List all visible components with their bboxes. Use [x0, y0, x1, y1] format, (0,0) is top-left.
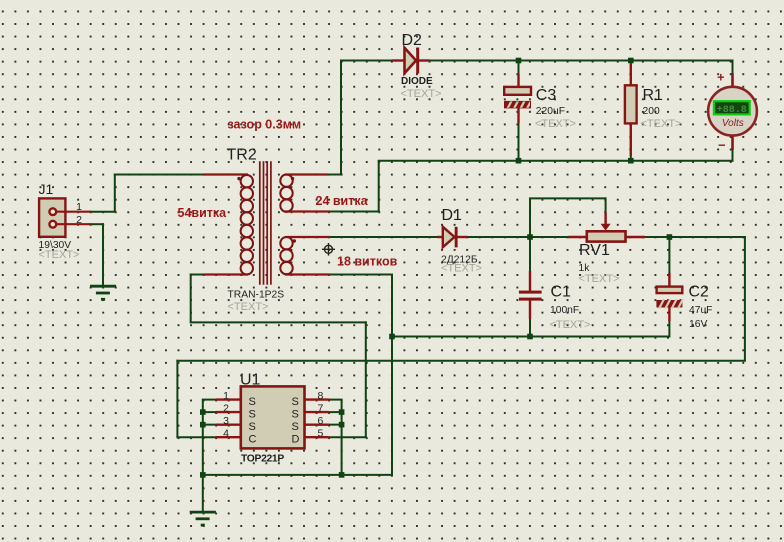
svg-text:1: 1: [223, 390, 229, 402]
junction C1 bottom: [527, 334, 533, 340]
text placeholder of TR2: [228, 301, 269, 313]
svg-text:6: 6: [318, 415, 324, 427]
wire lower rail of output section: [378, 160, 734, 162]
junction U1 pin7: [339, 409, 345, 415]
wire J1 pin2 green part: [90, 223, 105, 225]
junction U1 pin6: [339, 422, 345, 428]
svg-text:<TEXT>: <TEXT>: [39, 249, 80, 261]
wire U1 pin1 stub: [202, 399, 217, 401]
svg-text:18 витков: 18 витков: [337, 255, 398, 269]
wire top rail D2 cathode to voltmeter corner: [428, 60, 734, 62]
label C3: [536, 87, 557, 104]
pin name S left of U1: [249, 409, 256, 421]
junction U1 pin3: [200, 422, 206, 428]
wire right side vertical (C2 top net down): [744, 236, 746, 361]
svg-text:C: C: [249, 434, 257, 446]
ground symbol below U1: [190, 512, 216, 525]
svg-text:C3: C3: [536, 87, 557, 104]
wire U1 left vertical to ground: [202, 400, 204, 512]
wire U1 bottom rail: [202, 474, 393, 476]
svg-text:<TEXT>: <TEXT>: [535, 118, 576, 130]
svg-text:100nF: 100nF: [550, 305, 579, 316]
wire long control net horizontal: [176, 360, 746, 362]
wire U1 pin2 stub: [202, 411, 217, 413]
svg-text:<TEXT>: <TEXT>: [550, 319, 591, 331]
pin name S left of U1: [249, 421, 256, 433]
svg-text:47uF: 47uF: [689, 305, 712, 316]
wire drain vertical: [365, 321, 367, 437]
label C1: [551, 284, 572, 301]
svg-text:DIODE: DIODE: [401, 76, 433, 87]
pin number 1 of U1: [223, 390, 229, 402]
wire J1 pin2 down to ground: [102, 223, 104, 287]
svg-text:S: S: [292, 409, 299, 421]
wire D1 cathode to RV1 junction: [467, 236, 569, 238]
annotation 24 витка: [316, 194, 369, 208]
wire control net left vertical: [176, 360, 178, 437]
wire RV1 wiper net up: [529, 198, 531, 238]
wire primary bottom across to drain: [190, 321, 367, 323]
svg-text:D: D: [292, 434, 300, 446]
svg-text:−: −: [718, 138, 726, 153]
junction C1 bottom rail left end: [389, 334, 395, 340]
wire C1 top stub: [529, 236, 531, 272]
pin number 8 of U1: [318, 390, 324, 402]
svg-text:2: 2: [76, 214, 82, 226]
value 47uF of C2: [689, 305, 712, 316]
wire source net vertical: [391, 274, 393, 475]
junction U1 pin2: [200, 409, 206, 415]
polarity dot TR2 secondary 2: [293, 239, 296, 242]
svg-text:24 витка: 24 витка: [316, 194, 369, 208]
wire J1 pin1 green part: [90, 211, 116, 213]
voltmeter plus terminal: [717, 70, 725, 85]
wire TR2 primary bottom lead green part: [190, 274, 204, 276]
svg-text:200: 200: [643, 106, 660, 117]
value 2Д212Б of D1: [441, 255, 478, 266]
capacitor C1: [519, 271, 542, 319]
pin number 6 of U1: [318, 415, 324, 427]
svg-text:54витка: 54витка: [178, 206, 228, 220]
potentiometer RV1: [568, 212, 645, 241]
svg-text:J1: J1: [39, 181, 54, 197]
svg-text:зазор 0.3мм: зазор 0.3мм: [228, 118, 302, 132]
label TR2: [227, 146, 257, 163]
svg-text:U1: U1: [240, 372, 261, 389]
svg-text:TRAN-1P2S: TRAN-1P2S: [228, 290, 285, 301]
wire top rail left segment (TR2 sec1 top to D2 anode): [341, 60, 394, 62]
wire TR2 sec1 top lead green part: [327, 174, 342, 176]
value DIODE of D2: [401, 76, 433, 87]
wire U1 pin6 stub: [328, 424, 343, 426]
capacitor C3: [504, 74, 532, 123]
ground symbol below J1: [90, 286, 116, 299]
wire C2 bottom stub: [668, 320, 670, 338]
label R1: [643, 87, 664, 104]
wire RV1 right lead to right corner: [644, 236, 746, 238]
svg-text:S: S: [292, 421, 299, 433]
pin number 1 of J1: [76, 201, 82, 213]
wire U1 pin3 stub: [202, 424, 217, 426]
wire vertical from top rail down to TR2 sec1 top lead: [340, 60, 342, 175]
wire C3 bottom stub: [518, 122, 520, 162]
svg-text:8: 8: [318, 390, 324, 402]
polarity dot TR2 secondary 1: [291, 177, 294, 180]
wire RV1 wiper net across: [529, 197, 606, 199]
pin name S right of U1: [292, 409, 299, 421]
junction source net bottom rail: [339, 472, 345, 478]
svg-text:S: S: [249, 409, 256, 421]
pin number 2 of U1: [223, 402, 229, 414]
resistor R1: [625, 64, 637, 156]
connector J1: [39, 198, 91, 236]
svg-text:3: 3: [223, 415, 229, 427]
pin name C left of U1: [249, 434, 257, 446]
wire TR2 sec2 bottom lead green part: [329, 274, 393, 276]
wire TR2 sec2 top lead to D1 anode: [329, 236, 442, 238]
svg-text:<TEXT>: <TEXT>: [401, 88, 442, 100]
label C2: [689, 284, 710, 301]
polarity dot TR2 primary: [237, 177, 240, 180]
wire U1 pin7 stub: [328, 411, 343, 413]
svg-text:1: 1: [76, 201, 82, 213]
wire U1 pin8 stub: [328, 399, 343, 401]
wire TR2 primary top lead green part: [114, 174, 204, 176]
text placeholder of RV1: [579, 273, 620, 285]
junction ground rail left: [200, 472, 206, 478]
text placeholder of C3: [535, 118, 576, 130]
svg-text:<TEXT>: <TEXT>: [641, 118, 682, 130]
value TRAN-1P2S of TR2: [228, 290, 285, 301]
wire C2 top stub: [668, 236, 670, 274]
svg-text:TOP221P: TOP221P: [241, 454, 284, 465]
wire drain horizontal to U1 pin5: [329, 436, 367, 438]
svg-text:RV1: RV1: [579, 242, 610, 259]
pin name S right of U1: [292, 396, 299, 408]
svg-text:S: S: [249, 421, 256, 433]
origin marker crosshair: [322, 243, 335, 256]
pin name S right of U1: [292, 421, 299, 433]
value 19\30V of J1: [39, 240, 72, 251]
label D1: [442, 207, 463, 224]
svg-text:16V: 16V: [689, 319, 707, 330]
svg-text:+: +: [717, 70, 725, 85]
wire U1 right vertical: [341, 400, 343, 476]
value TOP221P of U1: [241, 454, 284, 465]
svg-text:C1: C1: [551, 284, 572, 301]
annotation 54витка: [178, 206, 228, 220]
svg-text:R1: R1: [643, 87, 664, 104]
junction C3 top rail: [516, 58, 522, 64]
wire vertical sec1 bottom up to lower top rail: [378, 161, 380, 213]
pin number 5 of U1: [318, 427, 324, 439]
text placeholder of D2: [401, 88, 442, 100]
voltmeter minus terminal: [718, 138, 726, 153]
svg-text:S: S: [249, 396, 256, 408]
text placeholder of D1: [441, 263, 482, 275]
wire voltmeter bottom connection: [732, 149, 734, 162]
svg-text:D2: D2: [402, 32, 423, 49]
pin name D right of U1: [292, 434, 300, 446]
svg-text:<TEXT>: <TEXT>: [441, 263, 482, 275]
junction C3 bottom rail: [516, 158, 522, 164]
voltmeter instrument: [708, 73, 757, 150]
svg-text:TR2: TR2: [227, 146, 257, 163]
junction R1 top rail: [628, 58, 634, 64]
wire voltmeter top connection: [732, 60, 734, 75]
transformer TR2 secondary 2 (18 turns): [280, 237, 330, 275]
transformer TR2 secondary 1 (24 turns): [280, 175, 330, 212]
wire vertical J1 pin1 up: [114, 174, 116, 212]
svg-text:<TEXT>: <TEXT>: [228, 301, 269, 313]
text placeholder of J1: [39, 249, 80, 261]
value 16V of C2: [689, 319, 707, 330]
junction D1 cathode / C1 / wiper: [527, 234, 533, 240]
svg-text:5: 5: [318, 427, 324, 439]
transformer TR2 core: [260, 161, 271, 285]
text placeholder of C1: [550, 319, 591, 331]
label J1: [39, 181, 54, 197]
svg-text:S: S: [292, 396, 299, 408]
value 200 of R1: [643, 106, 660, 117]
pin name S left of U1: [249, 396, 256, 408]
wire C3 top stub: [518, 60, 520, 76]
wire R1 top stub: [630, 60, 632, 69]
text placeholder of R1: [641, 118, 682, 130]
svg-text:C2: C2: [689, 284, 710, 301]
svg-text:220uF: 220uF: [536, 106, 565, 117]
wire primary bottom down: [190, 274, 192, 323]
wire control net to U1 pin4: [176, 436, 216, 438]
junction RV1 right / C2 top: [667, 234, 673, 240]
pin number 4 of U1: [223, 427, 229, 439]
wire TR2 sec1 bottom lead green part: [329, 211, 380, 213]
value 1k of RV1: [579, 263, 591, 274]
label RV1: [579, 242, 610, 259]
pin number 2 of J1: [76, 214, 82, 226]
diode D2: [392, 48, 429, 74]
capacitor C2: [656, 273, 683, 321]
value 100nF of C1: [550, 305, 579, 316]
pin number 7 of U1: [318, 402, 324, 414]
wire RV1 wiper net down to arrow: [605, 197, 607, 213]
value 220uF of C3: [536, 106, 565, 117]
pin number 3 of U1: [223, 415, 229, 427]
label D2: [402, 32, 423, 49]
svg-text:4: 4: [223, 427, 229, 439]
wire C1 bottom stub: [529, 318, 531, 338]
IC U1 TOP221P body: [216, 386, 329, 448]
junction R1 bottom rail: [628, 158, 634, 164]
wire R1 bottom stub: [630, 122, 632, 162]
svg-text:D1: D1: [442, 207, 463, 224]
annotation 18 витков: [337, 255, 398, 269]
svg-text:+88.8: +88.8: [717, 105, 747, 116]
svg-text:<TEXT>: <TEXT>: [579, 273, 620, 285]
svg-text:Volts: Volts: [722, 118, 744, 129]
diode D1: [437, 227, 468, 248]
svg-text:7: 7: [318, 402, 324, 414]
svg-text:2: 2: [223, 402, 229, 414]
annotation зазор 0.3мм: [228, 118, 302, 132]
label U1: [240, 372, 261, 389]
transformer TR2 primary winding: [203, 175, 253, 275]
wire C1 C2 bottom rail: [391, 336, 669, 338]
